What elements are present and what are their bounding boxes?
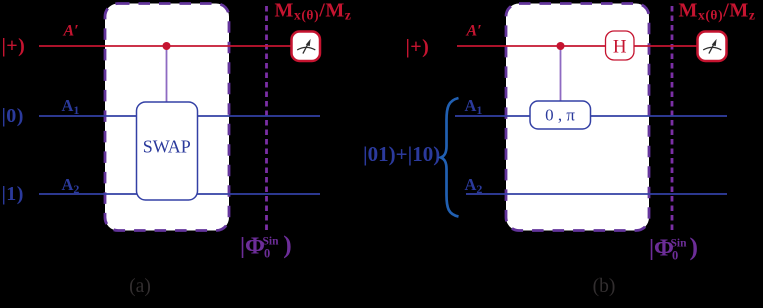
wire q0 (b) red — [457, 45, 698, 47]
svg-text:SWAP: SWAP — [143, 137, 191, 157]
svg-text:|01)+|10): |01)+|10) — [363, 142, 440, 166]
svg-text:|+): |+) — [406, 36, 430, 58]
control line (b) — [560, 46, 562, 103]
svg-text:A′: A′ — [63, 23, 79, 40]
control line (a) — [166, 46, 168, 104]
svg-text:0: 0 — [264, 247, 270, 261]
wire q2 (b) blue — [466, 193, 727, 195]
dashed box (a) — [105, 4, 229, 231]
wire q2 (a) blue — [39, 193, 320, 195]
wire q1 (a) blue — [39, 115, 320, 117]
svg-text:(a): (a) — [129, 276, 151, 297]
measurement dashed line (b) — [671, 6, 674, 230]
gate 0,pi — [530, 101, 591, 129]
svg-text:H: H — [613, 37, 627, 58]
label phi0 Sin (b) — [649, 232, 698, 263]
wire q1 (b) blue — [455, 115, 727, 117]
svg-text:(b): (b) — [593, 276, 616, 297]
svg-text:A′: A′ — [466, 23, 482, 40]
svg-text:|0): |0) — [2, 105, 24, 127]
svg-text:|+): |+) — [2, 35, 26, 57]
brace — [441, 98, 459, 217]
svg-text:|1): |1) — [2, 183, 24, 205]
control dot (a) — [163, 42, 171, 50]
measurement meter (a) — [292, 32, 321, 62]
gate H — [606, 31, 635, 60]
svg-text:0 , π: 0 , π — [545, 106, 575, 125]
gate SWAP — [137, 102, 198, 200]
dashed box (b) — [506, 4, 649, 231]
label phi0 Sin (a) — [240, 230, 292, 261]
svg-text:): ) — [283, 230, 292, 259]
control dot (b) — [557, 42, 565, 50]
measurement meter (b) — [698, 32, 727, 62]
wire q0 (a) red — [39, 45, 293, 47]
measurement dashed line (a) — [265, 6, 268, 230]
svg-text:0: 0 — [672, 249, 678, 263]
svg-text:): ) — [690, 232, 699, 261]
